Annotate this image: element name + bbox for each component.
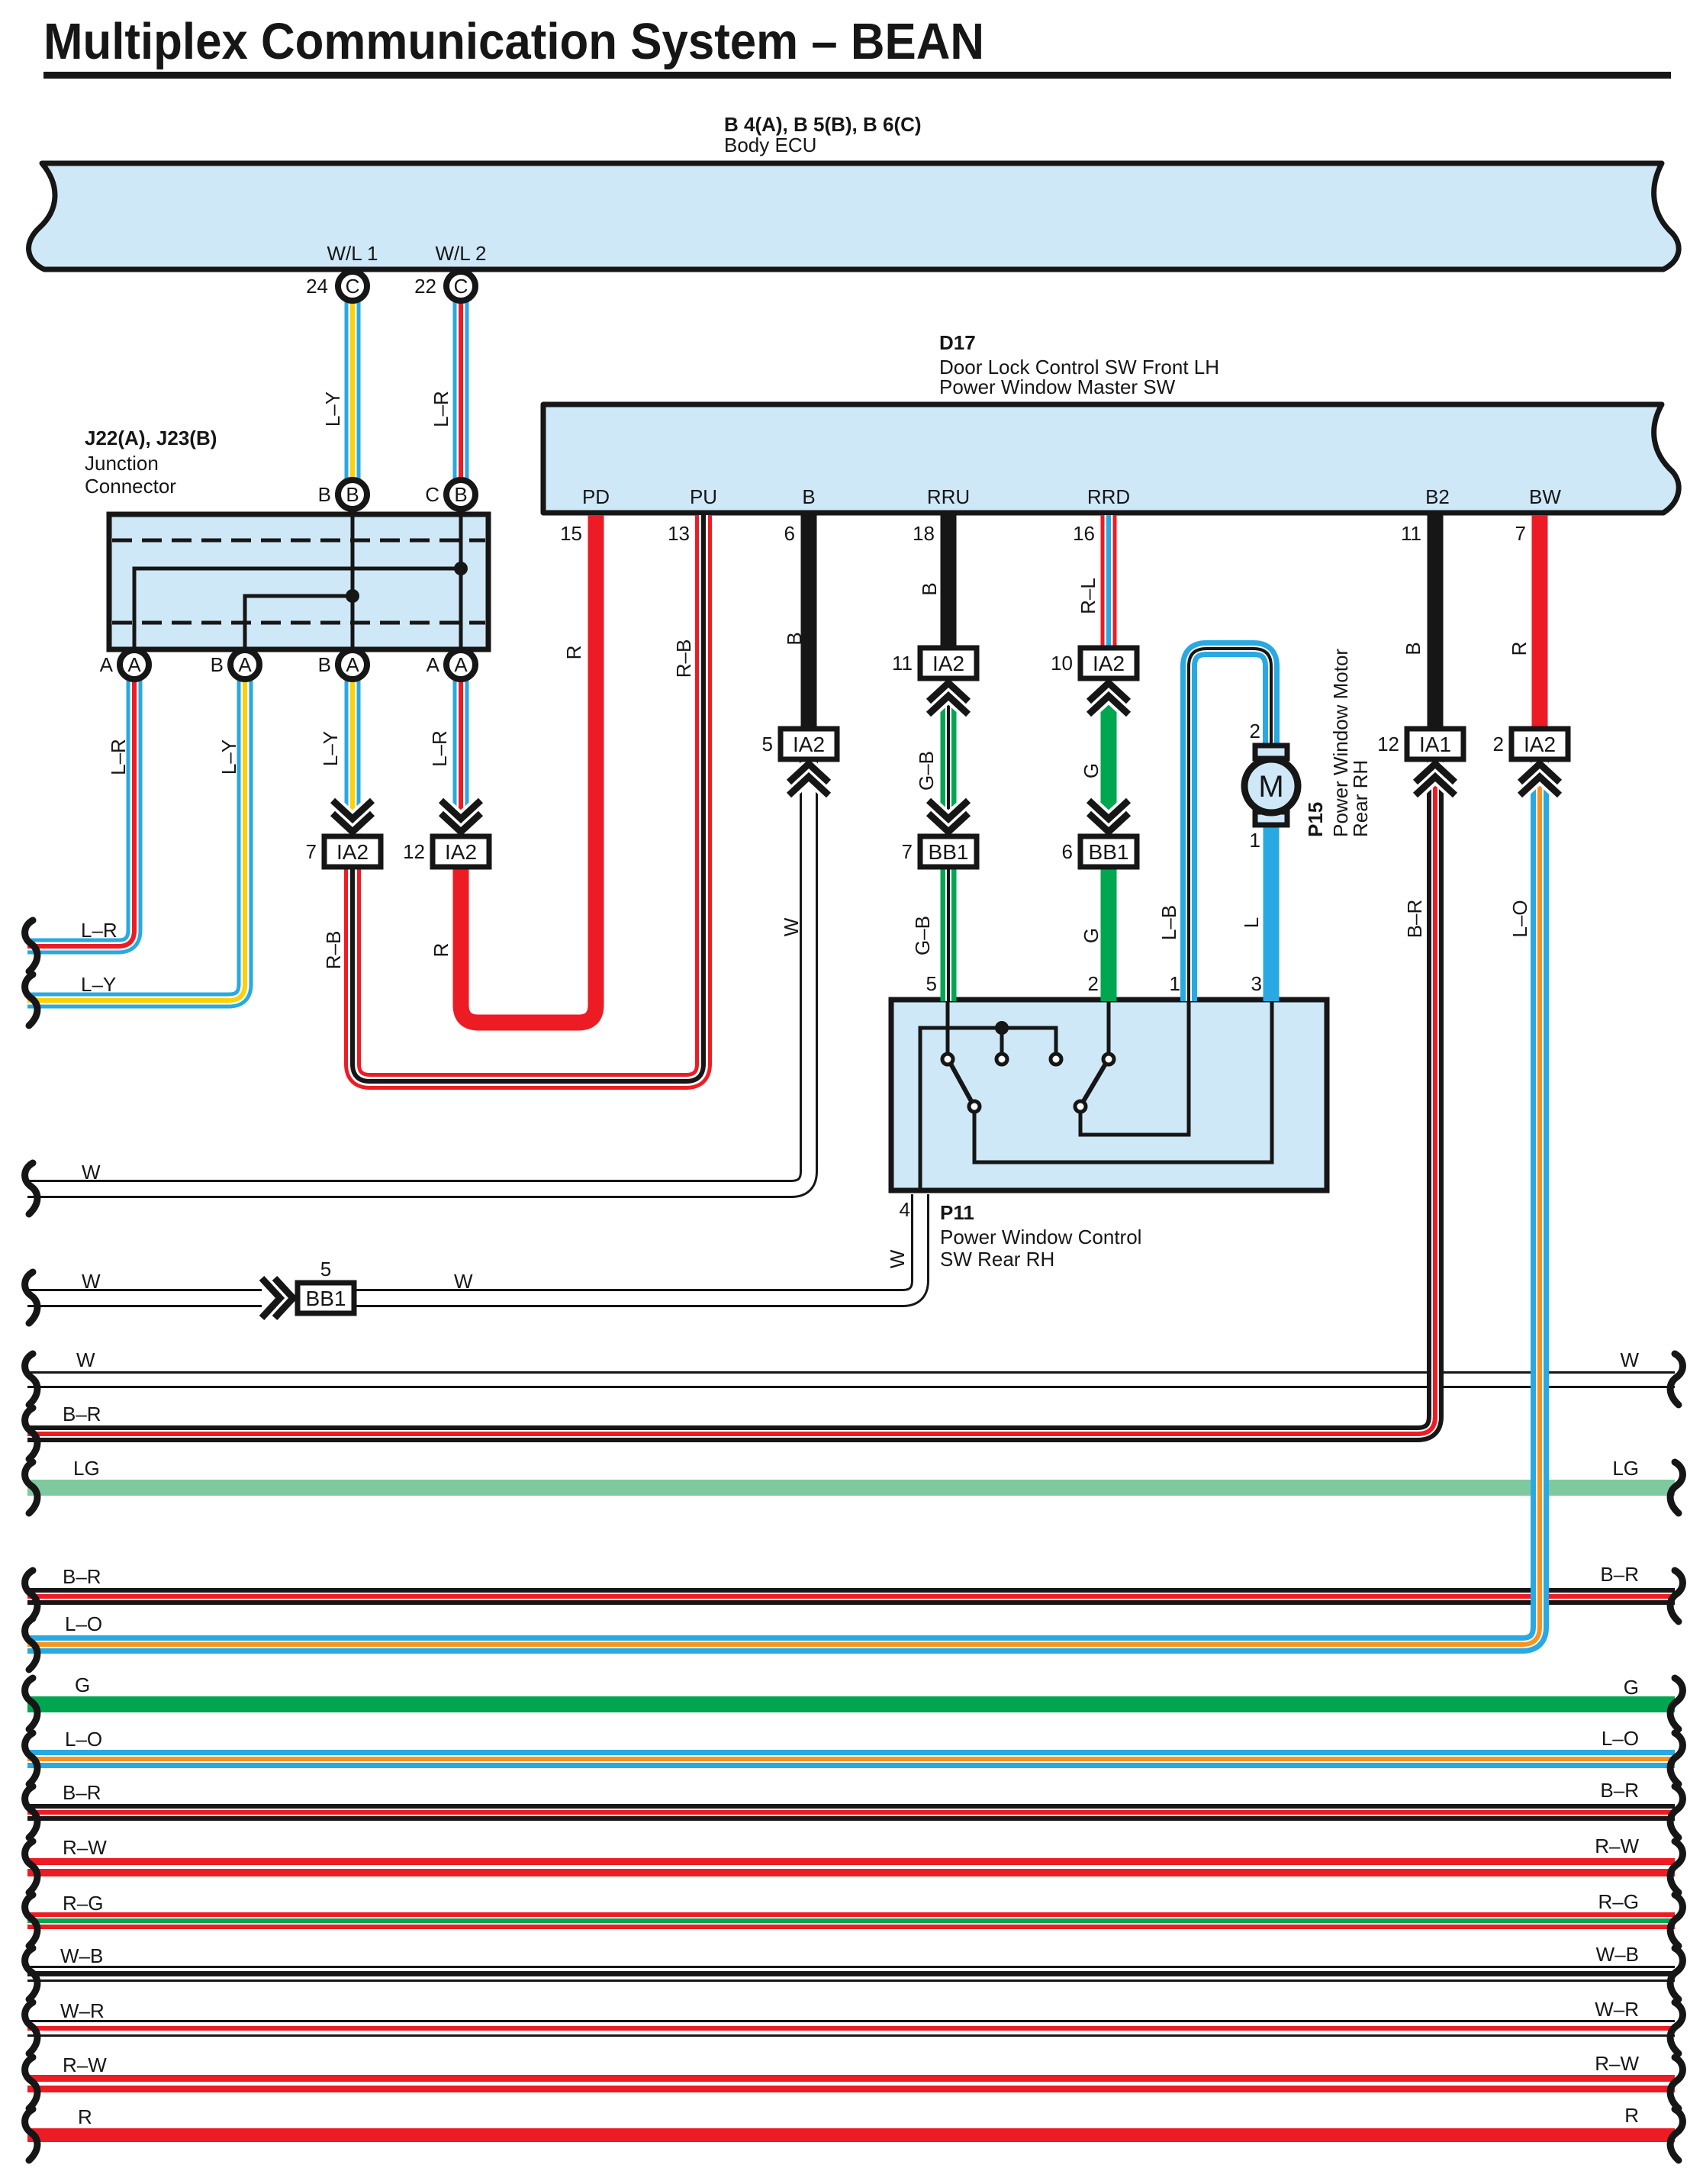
svg-text:L–Y: L–Y xyxy=(217,739,240,775)
svg-text:A: A xyxy=(127,653,141,676)
svg-text:G–B: G–B xyxy=(915,751,938,791)
svg-text:B: B xyxy=(346,483,359,506)
motor P15 body xyxy=(1244,759,1298,813)
svg-text:L–Y: L–Y xyxy=(321,391,344,427)
svg-text:4: 4 xyxy=(900,1198,910,1221)
svg-text:Multiplex Communication System: Multiplex Communication System – BEAN xyxy=(43,13,984,70)
svg-text:W–R: W–R xyxy=(1595,1998,1639,2021)
svg-text:6: 6 xyxy=(784,522,795,545)
connector box 12 IA2 xyxy=(433,836,489,867)
svg-text:15: 15 xyxy=(560,522,582,545)
svg-text:7: 7 xyxy=(902,840,913,863)
svg-text:LG: LG xyxy=(73,1457,100,1480)
svg-text:G: G xyxy=(1624,1676,1639,1699)
tear left LG run xyxy=(25,1462,37,1513)
junction circle B top left xyxy=(338,480,367,509)
junction circle A bottom 2 xyxy=(230,650,259,679)
svg-text:IA1: IA1 xyxy=(1419,733,1451,756)
svg-text:3: 3 xyxy=(1251,972,1262,995)
chevron down above 7 BB1 xyxy=(929,800,968,832)
svg-text:5: 5 xyxy=(762,733,773,755)
tear right R run xyxy=(1670,2109,1682,2160)
svg-text:W–R: W–R xyxy=(60,1999,105,2022)
svg-text:IA2: IA2 xyxy=(793,733,825,756)
svg-text:IA2: IA2 xyxy=(445,840,477,864)
svg-text:B–R: B–R xyxy=(63,1565,101,1588)
tear left wire L-Y xyxy=(25,974,37,1026)
svg-text:R: R xyxy=(78,2105,92,2128)
svg-text:L–B: L–B xyxy=(1157,905,1180,940)
P11 left switch lever xyxy=(951,1064,971,1101)
svg-text:Rear RH: Rear RH xyxy=(1349,760,1372,837)
P11 box Power Window Control SW Rear RH xyxy=(891,1000,1327,1190)
P11 internal junction dot xyxy=(995,1021,1009,1035)
tear left wire L-R xyxy=(25,920,37,971)
svg-text:IA2: IA2 xyxy=(932,652,964,675)
svg-text:12: 12 xyxy=(1377,733,1399,755)
title underline xyxy=(43,72,1671,79)
svg-text:B: B xyxy=(783,632,806,645)
svg-text:A: A xyxy=(454,653,468,676)
svg-text:W: W xyxy=(1620,1348,1639,1371)
svg-text:B–R: B–R xyxy=(63,1403,101,1425)
svg-text:G: G xyxy=(75,1673,90,1696)
svg-text:7: 7 xyxy=(306,840,317,863)
tear left B-R run3 xyxy=(25,1786,37,1838)
P11 internal pin1 lead xyxy=(1080,1000,1189,1135)
wire B from D17 RRU pin 18 to 11 IA2 xyxy=(941,515,957,650)
svg-text:J22(A), J23(B): J22(A), J23(B) xyxy=(85,427,217,449)
svg-text:5: 5 xyxy=(320,1258,331,1280)
tear right B-R run2 xyxy=(1670,1570,1682,1622)
svg-text:W: W xyxy=(780,917,803,936)
tear right W-R run xyxy=(1670,2002,1682,2054)
svg-text:B–R: B–R xyxy=(1403,900,1426,939)
tear left B-R run1 xyxy=(25,1408,37,1459)
svg-text:BB1: BB1 xyxy=(929,840,969,864)
svg-text:1: 1 xyxy=(1170,972,1180,995)
svg-text:C: C xyxy=(425,483,439,506)
wire run W-R y2647-2669 xyxy=(27,2020,1675,2037)
svg-text:R: R xyxy=(1624,2104,1639,2127)
motor P15 bottom brush cap xyxy=(1255,812,1287,825)
wire L-R junction A to 12 IA2 xyxy=(453,680,469,838)
svg-text:L–R: L–R xyxy=(428,730,451,767)
svg-text:D17: D17 xyxy=(939,331,976,354)
svg-text:Power Window Master SW: Power Window Master SW xyxy=(939,375,1176,398)
svg-text:6: 6 xyxy=(1062,840,1073,863)
chevron up below 11 IA2 xyxy=(929,683,968,714)
junction circle A bottom 4 xyxy=(446,650,475,679)
svg-text:B–R: B–R xyxy=(1600,1779,1639,1802)
connector box 5 BB1 xyxy=(298,1283,354,1313)
tear right G run xyxy=(1670,1678,1682,1729)
junction connector dashed line lower xyxy=(112,621,485,625)
svg-text:L–O: L–O xyxy=(1602,1727,1639,1750)
svg-text:A: A xyxy=(346,653,359,676)
svg-text:R: R xyxy=(430,943,452,958)
connector box 6 BB1 xyxy=(1080,836,1137,867)
svg-text:C: C xyxy=(454,275,468,298)
svg-text:W: W xyxy=(82,1161,101,1184)
svg-text:A: A xyxy=(427,653,440,676)
wire G from 10 IA2 to 6 BB1 xyxy=(1101,677,1117,838)
svg-text:7: 7 xyxy=(1515,522,1526,545)
svg-text:B–R: B–R xyxy=(63,1781,101,1804)
tear right LG run xyxy=(1670,1462,1682,1513)
junction internal wire row A xyxy=(134,569,461,649)
svg-text:18: 18 xyxy=(913,522,935,545)
wire B from D17 B2 pin 11 to 12 IA1 xyxy=(1428,515,1444,730)
svg-text:2: 2 xyxy=(1493,733,1504,755)
svg-text:L–O: L–O xyxy=(65,1612,102,1635)
svg-text:11: 11 xyxy=(1401,522,1421,545)
P11 right switch contact pin2 xyxy=(1103,1054,1114,1065)
wire run R-G y2506-2528 xyxy=(27,1912,1675,1929)
svg-text:L–R: L–R xyxy=(430,391,452,427)
chevron down above 7 IA2 xyxy=(333,800,372,832)
svg-text:W: W xyxy=(886,1249,909,1268)
Body ECU box B4(A) B5(B) B6(C) xyxy=(29,163,1679,269)
tear right W run xyxy=(1670,1354,1682,1405)
svg-text:R: R xyxy=(562,646,585,660)
svg-text:W–B: W–B xyxy=(1596,1943,1639,1966)
svg-text:Connector: Connector xyxy=(85,475,176,498)
svg-text:R–W: R–W xyxy=(63,1836,107,1859)
tear right W-B run xyxy=(1670,1948,1682,1999)
svg-text:L–O: L–O xyxy=(65,1728,102,1751)
junction connector dashed line upper xyxy=(112,539,485,543)
chevron down above 6 BB1 xyxy=(1089,800,1128,832)
P11 internal pin4 line xyxy=(920,1028,1056,1190)
svg-text:W: W xyxy=(82,1270,101,1293)
junction circle B top right xyxy=(446,480,475,509)
svg-text:24: 24 xyxy=(306,275,328,298)
wire G-B from 7 BB1 to P11 pin 5 xyxy=(941,865,957,1001)
P11 internal dot stem xyxy=(1000,1028,1004,1053)
svg-text:10: 10 xyxy=(1051,652,1073,675)
svg-text:PD: PD xyxy=(582,485,610,508)
connector circle C pin 22 xyxy=(446,272,475,301)
wire G from 6 BB1 to P11 pin 2 xyxy=(1101,865,1117,1001)
svg-text:SW Rear RH: SW Rear RH xyxy=(940,1248,1054,1271)
wire L-B loop from P11 pin 1 to motor pin 2 xyxy=(1189,649,1271,1001)
svg-text:G: G xyxy=(1080,763,1103,778)
svg-text:BB1: BB1 xyxy=(306,1287,346,1310)
tear left W-B run xyxy=(25,1948,37,1999)
connector box 7 IA2 xyxy=(324,836,381,867)
svg-text:P11: P11 xyxy=(940,1201,974,1224)
svg-text:P15: P15 xyxy=(1304,802,1327,837)
junction internal wire vertical B column xyxy=(351,514,355,649)
connector box 10 IA2 xyxy=(1080,648,1137,678)
wire W from P11 pin 4 to 5 BB1 xyxy=(353,1194,920,1298)
svg-text:M: M xyxy=(1258,770,1283,804)
tear right R-W run1 xyxy=(1670,1841,1682,1892)
svg-text:1: 1 xyxy=(1250,829,1260,852)
svg-text:IA2: IA2 xyxy=(1524,733,1556,756)
svg-text:R–G: R–G xyxy=(63,1892,103,1915)
svg-text:B: B xyxy=(918,582,941,595)
motor P15 top brush cap xyxy=(1255,746,1287,759)
svg-text:L–Y: L–Y xyxy=(319,731,342,766)
svg-text:A: A xyxy=(238,653,252,676)
wire L-R from W/L2 to junction C xyxy=(453,300,469,481)
connector box 2 IA2 xyxy=(1511,729,1568,759)
junction internal wire row B xyxy=(245,596,353,649)
svg-text:W/L 2: W/L 2 xyxy=(436,242,487,265)
P11 left lever end circle xyxy=(969,1101,980,1112)
wire run L-O second y2293-2316 xyxy=(27,1750,1675,1768)
tear left W run xyxy=(25,1354,37,1405)
junction internal wire vertical C column xyxy=(459,514,463,649)
chevron up below 10 IA2 xyxy=(1089,683,1128,714)
tear left R-G run xyxy=(25,1895,37,1946)
wire run G y2223-2243 xyxy=(27,1696,1675,1712)
wire run W-B y2576-2597 xyxy=(27,1966,1675,1982)
wire W from 5 BB1 chevron to left tear xyxy=(27,1289,262,1307)
wire L-R from junction pin A to left tear xyxy=(27,680,134,946)
svg-text:Junction: Junction xyxy=(85,452,159,475)
svg-text:22: 22 xyxy=(414,275,436,298)
wire W from 5 IA2 to left tear xyxy=(27,758,809,1189)
wire run B-R third y2364-2386 xyxy=(27,1804,1675,1821)
P11 internal pin2 lead xyxy=(1107,1000,1111,1053)
wire run R-W first y2435-2459 xyxy=(27,1858,1675,1876)
tear left R run xyxy=(25,2109,37,2160)
wire R from 12 IA2 to D17 PD pin 15 xyxy=(461,515,596,1023)
svg-text:11: 11 xyxy=(892,652,913,675)
svg-text:B 4(A), B 5(B), B 6(C): B 4(A), B 5(B), B 6(C) xyxy=(724,113,922,136)
wire R from D17 BW pin 7 to 2 IA2 xyxy=(1532,515,1548,730)
tear left G run xyxy=(25,1678,37,1729)
svg-text:A: A xyxy=(100,653,114,676)
svg-text:Power Window Control: Power Window Control xyxy=(940,1226,1141,1248)
tear left W-R run xyxy=(25,2002,37,2054)
P11 internal pin5 lead xyxy=(946,1000,950,1053)
svg-text:5: 5 xyxy=(926,972,937,995)
svg-text:BB1: BB1 xyxy=(1089,840,1129,864)
svg-text:IA2: IA2 xyxy=(336,840,369,864)
tear right R-W run2 xyxy=(1670,2057,1682,2108)
svg-text:L: L xyxy=(1240,917,1263,928)
P11 right lever end circle xyxy=(1075,1101,1086,1112)
svg-text:BW: BW xyxy=(1529,485,1561,508)
svg-text:C: C xyxy=(346,275,360,298)
junction circle A bottom 1 xyxy=(120,650,149,679)
svg-text:12: 12 xyxy=(403,840,425,863)
svg-text:G–B: G–B xyxy=(911,916,934,955)
junction circle A bottom 3 xyxy=(338,650,367,679)
tear left L-O run1 xyxy=(25,1619,37,1670)
connector box 11 IA2 xyxy=(920,648,977,678)
tear left B-R run2 xyxy=(25,1570,37,1622)
junction internal node dot row A xyxy=(454,562,468,575)
tear left wire W lower xyxy=(25,1272,37,1323)
svg-text:RRU: RRU xyxy=(927,485,970,508)
connector box 7 BB1 xyxy=(920,836,977,867)
tear right B-R run3 xyxy=(1670,1786,1682,1838)
connector box 12 IA1 xyxy=(1407,729,1463,759)
svg-text:B: B xyxy=(1402,642,1425,655)
tear left L-O run2 xyxy=(25,1733,37,1784)
svg-text:L–Y: L–Y xyxy=(81,973,116,996)
wire run LG y1939-1960 xyxy=(27,1480,1675,1496)
svg-text:W/L 1: W/L 1 xyxy=(327,242,378,265)
svg-text:R–W: R–W xyxy=(63,2054,107,2076)
wire run L-O first (to 2 IA2) y2143-2167 xyxy=(27,758,1540,1644)
svg-text:G: G xyxy=(1080,928,1103,943)
wire run R-W second y2719-2742 xyxy=(27,2075,1675,2092)
svg-text:13: 13 xyxy=(668,522,690,545)
svg-text:R–W: R–W xyxy=(1595,2052,1639,2075)
svg-text:L–R: L–R xyxy=(107,739,130,775)
svg-text:R–B: R–B xyxy=(322,931,345,970)
svg-text:Body ECU: Body ECU xyxy=(724,134,816,156)
svg-text:W: W xyxy=(454,1270,473,1293)
svg-text:B: B xyxy=(454,483,467,506)
wire R-L from D17 RRD pin 16 to 10 IA2 xyxy=(1101,515,1117,650)
svg-text:RRD: RRD xyxy=(1087,485,1130,508)
svg-text:L–O: L–O xyxy=(1508,900,1531,937)
svg-text:R: R xyxy=(1508,642,1531,656)
svg-text:R–W: R–W xyxy=(1595,1834,1639,1857)
wire run R y2789-2807 xyxy=(27,2128,1675,2142)
tear right R-G run xyxy=(1670,1895,1682,1946)
wire run B-R second y2081-2103 xyxy=(27,1588,1675,1605)
svg-text:B–R: B–R xyxy=(1600,1563,1639,1586)
wire run W (white) y1798-1818 xyxy=(27,1371,1675,1388)
connector box 5 IA2 xyxy=(781,729,837,759)
wire G-B from 11 IA2 to 7 BB1 xyxy=(941,677,957,838)
wire L-Y from junction pin B to left tear xyxy=(27,680,245,1000)
chevron down above 12 IA2 xyxy=(441,800,481,832)
svg-text:R–G: R–G xyxy=(1598,1890,1639,1913)
svg-text:2: 2 xyxy=(1088,972,1099,995)
svg-text:2: 2 xyxy=(1250,720,1260,742)
wire B from D17 pin 6 to 5 IA2 xyxy=(801,515,817,730)
svg-text:PU: PU xyxy=(690,485,717,508)
P11 right switch lever xyxy=(1083,1064,1106,1101)
connector circle C pin 24 xyxy=(338,272,367,301)
svg-text:B: B xyxy=(318,653,331,676)
wire L-Y from W/L1 to junction B xyxy=(345,300,361,481)
svg-text:B: B xyxy=(318,483,331,506)
junction internal node dot row B xyxy=(346,589,359,603)
wire L-Y junction B to 7 IA2 xyxy=(345,680,361,838)
P11 left switch contact middle xyxy=(996,1054,1007,1065)
chevron up below 5 IA2 xyxy=(789,764,829,795)
svg-text:B2: B2 xyxy=(1425,485,1450,508)
svg-text:B: B xyxy=(802,485,815,508)
P11 left switch contact pin5 xyxy=(942,1054,953,1065)
wire run B-R first (to 12 IA1) y1868-1890 xyxy=(27,758,1435,1434)
svg-text:16: 16 xyxy=(1073,522,1095,545)
tear right L-O run2 xyxy=(1670,1733,1682,1784)
junction connector J22(A) J23(B) box xyxy=(109,514,488,649)
tear left wire W upper xyxy=(25,1163,37,1214)
tear left R-W run2 xyxy=(25,2057,37,2108)
tear left R-W run1 xyxy=(25,1841,37,1892)
svg-text:L–R: L–R xyxy=(81,919,118,942)
svg-text:LG: LG xyxy=(1612,1457,1639,1480)
chevron up below 2 IA2 xyxy=(1520,764,1560,795)
svg-text:W–B: W–B xyxy=(60,1944,103,1967)
svg-text:B: B xyxy=(211,653,224,676)
D17 box Power Window Master SW xyxy=(543,404,1679,513)
chevron right before 5 BB1 xyxy=(262,1278,293,1318)
svg-text:W: W xyxy=(76,1348,95,1371)
svg-text:IA2: IA2 xyxy=(1093,652,1125,675)
wire L from motor pin 1 to P11 pin 3 xyxy=(1264,823,1280,1001)
wire R-B from 7 IA2 to D17 PU pin 13 xyxy=(353,515,703,1081)
svg-text:R–B: R–B xyxy=(672,639,695,678)
P11 left switch contact right xyxy=(1051,1054,1061,1065)
P11 internal pin3 lead xyxy=(974,1000,1272,1162)
chevron up below 12 IA1 xyxy=(1415,764,1455,795)
svg-text:R–L: R–L xyxy=(1077,578,1099,614)
